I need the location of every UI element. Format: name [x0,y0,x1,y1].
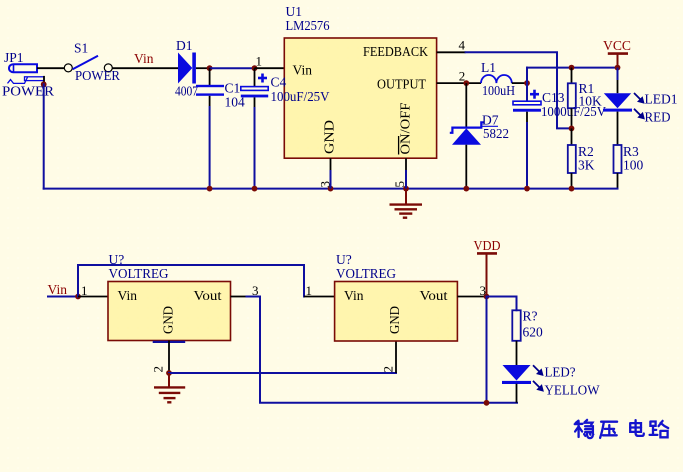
power VCC [603,38,631,68]
node bus junction C1 [207,186,213,192]
switch S1 [64,40,120,83]
svg-text:RED: RED [645,109,671,124]
wire node A to node B [210,67,255,69]
svg-text:620: 620 [523,325,544,340]
node bus junction C4 [252,186,258,192]
svg-text:S1: S1 [74,40,88,55]
resistor R2 [568,128,595,188]
wire first Vout route down and right [247,297,518,403]
svg-text:5822: 5822 [483,126,509,141]
node A junction [207,65,213,71]
wire GND link between regulators [169,372,396,374]
svg-text:L1: L1 [481,60,496,75]
node B junction [252,65,258,71]
node feedback junction [569,125,575,131]
wire switch to diode D1 [112,67,178,69]
LED LED1 [603,68,678,145]
voltage regulator U? second box [335,252,458,341]
svg-text:100uF/25V: 100uF/25V [271,89,330,104]
pin 4 wire FEEDBACK [437,51,466,53]
node first GND junction [166,370,172,376]
svg-text:R?: R? [523,309,538,324]
voltage regulator U? first box [108,252,231,341]
diode D1 [175,38,198,99]
resistor R1 [568,68,602,129]
svg-text:OUTPUT: OUTPUT [377,77,427,92]
svg-text:4007: 4007 [175,84,198,99]
pin 2 wire first VOLTREG GND [151,341,186,374]
svg-text:100uH: 100uH [482,83,515,98]
wire C1 to bus [209,106,211,189]
node bottom wire junction [484,400,490,406]
node D7 tap junction [463,80,469,86]
svg-text:JP1: JP1 [4,50,24,65]
connector JP1 [2,50,54,99]
wire to first VOLTREG pin 1 [78,296,108,298]
wire jack tip to switch [37,67,65,69]
svg-text:YELLOW: YELLOW [545,382,600,397]
svg-text:GND: GND [322,120,337,154]
wire feedback route [466,52,572,128]
svg-text:VDD: VDD [474,238,501,253]
svg-text:D1: D1 [176,38,193,53]
svg-text:2: 2 [381,366,396,373]
wire top rail to VCC [527,67,618,69]
svg-text:VOLTREG: VOLTREG [336,266,396,281]
wire VDD vertical down [486,297,488,403]
node lower Vin junction [75,294,81,300]
svg-text:C4: C4 [271,74,287,89]
pin 3 wire second VOLTREG [457,296,486,298]
resistor R? [512,309,543,341]
svg-text:POWER: POWER [75,68,120,83]
LED LED? [502,364,600,403]
wire jack sleeve pin [43,76,45,84]
ground symbol bottom [154,373,185,402]
svg-text:LM2576: LM2576 [286,18,330,33]
title Chinese text 稳压电路 [575,420,668,438]
wire C4 to bus [254,107,256,189]
wire Vin stub lower [47,296,78,298]
inductor L1 [481,60,515,98]
pin 3 wire GND of U1 [318,158,333,188]
wire D7 anode to bus [465,145,467,189]
svg-text:VCC: VCC [603,38,631,53]
node bus junction GND pin [328,186,334,192]
svg-text:1: 1 [256,54,263,69]
svg-text:C1: C1 [225,81,241,96]
pin 2 wire OUTPUT [437,82,481,84]
wire VDD node to R? [487,297,517,311]
node R1 top junction [569,65,575,71]
svg-text:2: 2 [151,366,166,373]
svg-text:VOLTREG: VOLTREG [109,266,169,281]
svg-text:Vin: Vin [48,282,68,297]
capacitor C4 [241,68,330,107]
pin 2 wire second VOLTREG GND [381,341,397,374]
svg-text:U?: U? [109,252,125,267]
wire left vertical to ground bus [43,84,45,188]
svg-text:Vin: Vin [134,51,154,66]
svg-text:Vin: Vin [118,288,138,303]
node jack sleeve junction [41,81,47,87]
ground symbol top [390,189,423,218]
capacitor C1 [196,68,245,109]
node bus junction R2 [569,186,575,192]
svg-text:100: 100 [623,158,644,173]
svg-text:U1: U1 [286,4,303,19]
wire D1 to node A [196,67,210,69]
svg-text:3K: 3K [578,158,595,173]
svg-text:Vout: Vout [194,288,222,303]
diode D7 [450,83,509,145]
svg-text:LED?: LED? [545,364,576,379]
svg-text:1: 1 [81,283,88,298]
svg-text:5: 5 [392,181,407,188]
pin 3 wire first VOLTREG [231,296,247,298]
wire L1 to node C [512,82,527,84]
svg-text:Vout: Vout [420,288,448,303]
svg-text:GND: GND [387,306,402,334]
node bus junction D7 [463,186,469,192]
svg-text:ON/OFF: ON/OFF [398,102,413,155]
wire C13 to bus [526,122,528,189]
svg-text:1: 1 [306,283,313,298]
resistor R3 [614,144,644,189]
op-amp regulator U1 box [284,4,436,158]
svg-text:Vin: Vin [293,63,313,78]
wire into second VOLTREG pin 1 [304,296,335,298]
wire over-route to U? second input [78,265,304,297]
capacitor C13 [513,83,606,122]
wire ground bus top circuit [44,188,618,190]
svg-text:U?: U? [336,252,352,267]
svg-text:3: 3 [318,181,333,188]
power VDD [474,238,501,297]
node bus junction C13 [524,186,530,192]
svg-text:GND: GND [161,306,176,334]
svg-text:FEEDBACK: FEEDBACK [363,44,428,59]
pin 5 wire ON/OFF of U1 [392,158,407,188]
node VDD junction [484,294,490,300]
node VCC junction [615,65,621,71]
wire node C riser [526,68,528,84]
wire node B to U1 pin 1 [255,67,285,69]
svg-text:LED1: LED1 [645,91,678,106]
svg-text:C13: C13 [542,90,565,105]
svg-text:Vin: Vin [344,288,364,303]
node bus junction ground [403,186,409,192]
wire R? to LED? [516,341,518,366]
svg-text:10K: 10K [579,94,603,109]
node C junction [524,80,530,86]
svg-text:4: 4 [459,37,466,52]
